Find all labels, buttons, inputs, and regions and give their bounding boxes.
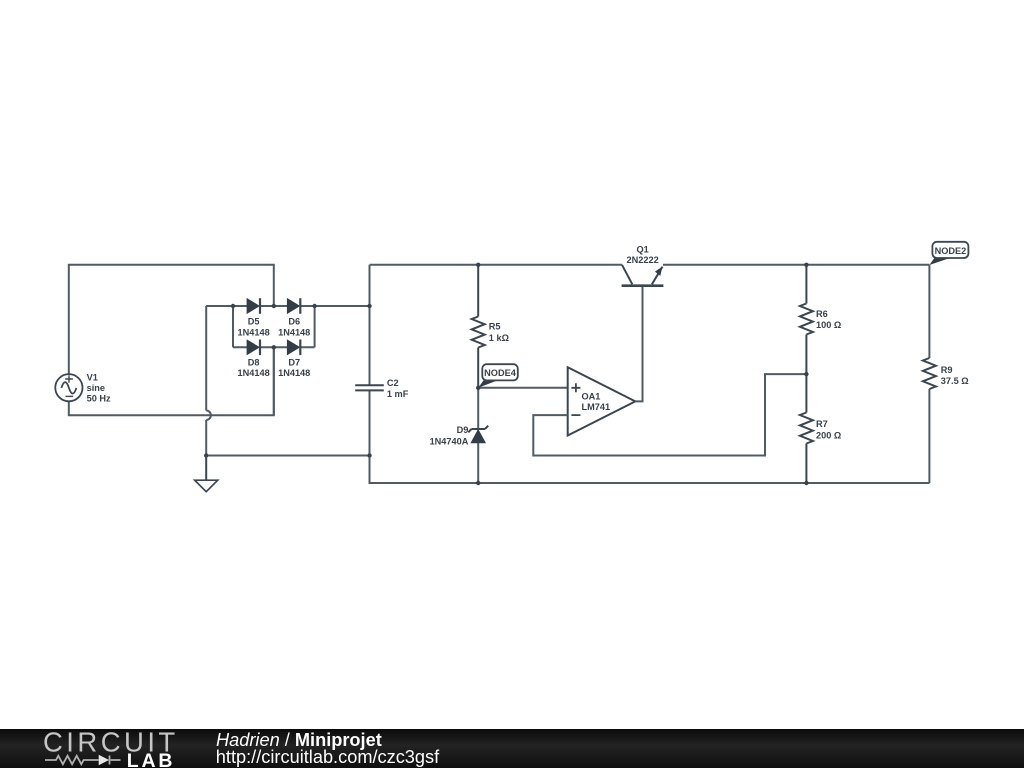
wire node4 to opamp (478, 387, 568, 389)
wire bridge mid down (273, 347, 275, 415)
logo resistor-diode (45, 756, 121, 765)
label D5 (238, 317, 270, 338)
resistor R6 (800, 265, 813, 374)
svg-text:C2: C2 (387, 378, 399, 388)
diode D5 (247, 298, 260, 314)
svg-text:1N4148: 1N4148 (278, 327, 310, 337)
label Q1 (627, 244, 659, 265)
wire opamp output (635, 286, 642, 402)
wire R5 to D9 (477, 388, 479, 429)
wire bridge right stub (314, 306, 316, 347)
op-amp OA1 (568, 367, 636, 435)
ground (195, 456, 218, 492)
svg-text:D8: D8 (248, 357, 260, 367)
svg-text:LAB: LAB (127, 750, 175, 768)
label D8 (238, 357, 270, 378)
svg-text:37.5 Ω: 37.5 Ω (941, 376, 969, 386)
wire top rail left of Q1 (370, 264, 623, 266)
svg-text:50 Hz: 50 Hz (87, 394, 111, 404)
svg-text:http://circuitlab.com/czc3gsf: http://circuitlab.com/czc3gsf (216, 747, 440, 767)
node NODE2 (929, 242, 968, 265)
resistor R9 (923, 358, 936, 389)
svg-text:R9: R9 (941, 365, 953, 375)
wire left rail top (369, 265, 371, 386)
label OA1 (582, 392, 611, 412)
svg-text:200 Ω: 200 Ω (816, 430, 841, 440)
label R9 (941, 365, 969, 386)
svg-text:sine: sine (87, 383, 105, 393)
svg-text:1N4148: 1N4148 (238, 327, 270, 337)
label R5 (489, 322, 509, 343)
junction dots (204, 263, 809, 486)
svg-text:1N4148: 1N4148 (238, 368, 270, 378)
footer bar (0, 729, 1024, 768)
wire V1 bottom (69, 347, 274, 415)
svg-text:LM741: LM741 (582, 402, 611, 412)
svg-text:1 kΩ: 1 kΩ (489, 333, 509, 343)
wire hop (206, 411, 211, 420)
label D6 (278, 317, 310, 338)
logo diode triangle (99, 755, 109, 765)
svg-text:D7: D7 (288, 357, 300, 367)
svg-text:D6: D6 (288, 317, 300, 327)
svg-text:NODE4: NODE4 (484, 368, 517, 378)
svg-text:D5: D5 (248, 317, 260, 327)
svg-text:1 mF: 1 mF (387, 389, 409, 399)
wire opamp feedback (533, 374, 806, 455)
node NODE4 (478, 364, 518, 388)
diode D8 (247, 340, 260, 356)
wire ground rail (206, 455, 369, 457)
wire left drop with hop (205, 306, 207, 456)
svg-text:R7: R7 (816, 419, 828, 429)
resistor R7 (800, 374, 813, 483)
capacitor C2 (355, 385, 384, 390)
zener diode D9 (468, 426, 488, 483)
wire bridge row2 (233, 346, 315, 348)
wire top rail right of Q1 (663, 264, 929, 266)
wire left rail bottom (370, 390, 479, 483)
wire bottom rail (478, 482, 929, 484)
wire V1 top loop (69, 265, 274, 375)
svg-text:1N4148: 1N4148 (278, 368, 310, 378)
svg-text:R6: R6 (816, 309, 828, 319)
svg-text:100 Ω: 100 Ω (816, 320, 841, 330)
voltage source V1 (55, 374, 82, 401)
svg-text:R5: R5 (489, 322, 501, 332)
svg-text:2N2222: 2N2222 (627, 255, 659, 265)
label D9 (430, 425, 469, 446)
wire bridge left stub (232, 306, 234, 347)
label C2 (387, 378, 409, 399)
diode D6 (288, 298, 301, 314)
svg-text:Q1: Q1 (636, 244, 648, 254)
wire R9 rails (928, 265, 930, 483)
label R6 (816, 309, 841, 330)
diode D7 (288, 340, 301, 356)
svg-text:1N4740A: 1N4740A (430, 436, 469, 446)
label R7 (816, 419, 841, 440)
label V1 (87, 373, 111, 404)
transistor Q1 (622, 265, 664, 286)
svg-text:NODE2: NODE2 (935, 246, 967, 256)
svg-text:OA1: OA1 (582, 392, 601, 402)
wire bridge row1 (206, 305, 369, 307)
label D7 (278, 357, 310, 378)
resistor R5 (472, 265, 485, 388)
svg-text:V1: V1 (87, 373, 98, 383)
svg-text:D9: D9 (457, 425, 469, 435)
